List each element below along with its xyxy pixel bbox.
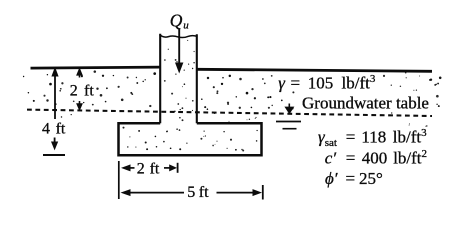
stipple: dots near gamma label	[400, 76, 439, 91]
svg-text:ϕ′=25°: ϕ′=25°	[325, 169, 383, 188]
label gamma_sat = 118 lb/ft3	[318, 127, 427, 149]
stipple: stray dots below water table	[61, 114, 428, 127]
stipple: left soil band	[23, 70, 156, 107]
svg-text:γ=105lb/ft3: γ=105lb/ft3	[278, 73, 376, 93]
svg-text:Groundwater table: Groundwater table	[302, 93, 429, 112]
label 2 ft (depth)	[70, 82, 95, 99]
load arrow Qu	[175, 28, 183, 73]
groundwater table dashed line	[27, 110, 432, 116]
water table symbol	[276, 104, 301, 129]
dimension: 5 ft footing (bottom)	[121, 185, 263, 200]
column right wall	[196, 34, 198, 123]
label 2 ft (footing)	[137, 160, 160, 177]
label 4 ft	[42, 121, 66, 138]
label 5 ft	[187, 184, 209, 201]
svg-text:u: u	[183, 20, 189, 32]
footing outline	[119, 123, 262, 155]
stipple: column fill	[164, 40, 195, 121]
label c' = 400 lb/ft2	[325, 148, 427, 168]
ground surface line (right of column)	[197, 69, 432, 71]
stipple: right soil band	[201, 72, 441, 114]
dimension: 4 ft vertical with arrows	[43, 67, 65, 155]
label gamma = 105 lb/ft3	[278, 73, 376, 93]
dimension: 2 ft footing (bottom)	[119, 161, 178, 199]
label Groundwater table	[302, 93, 429, 112]
dimension: 2 ft depth arrows	[76, 67, 83, 111]
ground surface line (left of column)	[31, 67, 161, 68]
svg-text:Q: Q	[170, 10, 183, 30]
stipple: footing fill	[123, 127, 258, 152]
svg-text:5ft: 5ft	[187, 184, 209, 201]
column top break line	[160, 35, 198, 38]
load label Qu	[170, 10, 189, 31]
label phi' = 25 deg	[325, 169, 383, 188]
column left wall	[159, 34, 161, 123]
